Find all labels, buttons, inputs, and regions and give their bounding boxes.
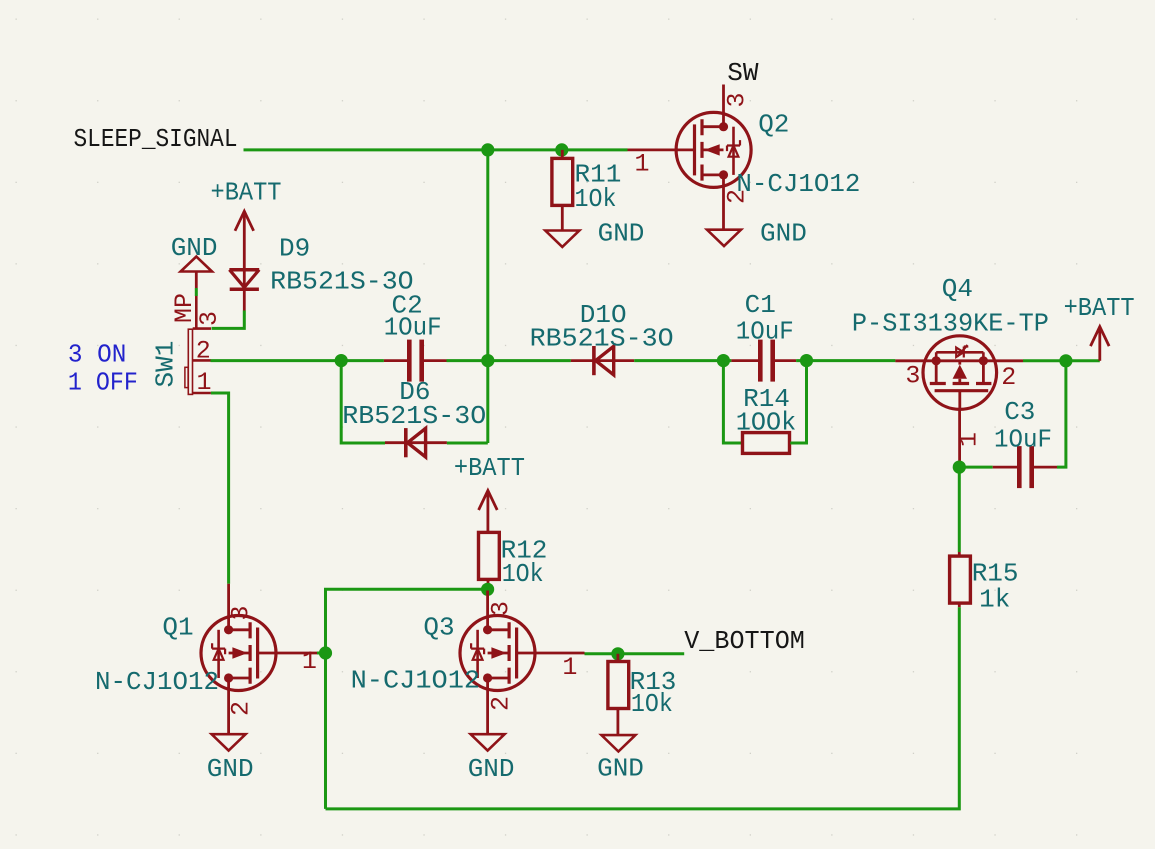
svg-text:RB521S-3O: RB521S-3O bbox=[342, 401, 486, 431]
svg-text:2: 2 bbox=[723, 189, 752, 204]
wire Q1 gate to junction bbox=[317, 652, 326, 655]
svg-text:1OuF: 1OuF bbox=[384, 313, 442, 343]
svg-text:Q3: Q3 bbox=[423, 613, 454, 643]
svg-text:N-CJ1O12: N-CJ1O12 bbox=[95, 667, 219, 697]
power +BATT at D9 bbox=[235, 211, 254, 289]
junction left of C1 bbox=[717, 354, 730, 367]
svg-text:1: 1 bbox=[562, 653, 577, 682]
junction left of C2 bbox=[335, 354, 348, 367]
svg-text:1Ok: 1Ok bbox=[502, 559, 544, 589]
svg-text:+BATT: +BATT bbox=[454, 453, 525, 483]
wire vertical from top wire down to mid row bbox=[486, 150, 489, 443]
resistor R11 bbox=[552, 150, 573, 230]
svg-text:3: 3 bbox=[487, 601, 516, 616]
svg-text:1OuF: 1OuF bbox=[736, 317, 794, 347]
wire R15 down to bottom loop bbox=[326, 607, 960, 809]
wire SW1 pin1 down to Q1 bbox=[211, 393, 229, 584]
svg-text:1OuF: 1OuF bbox=[994, 425, 1052, 455]
svg-text:1 OFF: 1 OFF bbox=[68, 368, 138, 398]
ground at SW1 pin3 (inverted) bbox=[181, 257, 212, 289]
svg-text:3 ON: 3 ON bbox=[68, 340, 127, 370]
wire D9 to SW1 pin3 bbox=[212, 311, 245, 329]
switch SW1 bbox=[185, 296, 211, 394]
wire C2 loop right bbox=[447, 442, 488, 445]
wire SW1 pin2 to C2 bbox=[211, 359, 384, 362]
svg-text:3: 3 bbox=[227, 605, 256, 620]
diode D6 bbox=[385, 428, 447, 457]
svg-text:SLEEP_SIGNAL: SLEEP_SIGNAL bbox=[74, 124, 238, 154]
wire C2 right to D10 bbox=[447, 359, 571, 362]
junction below Q4 bbox=[953, 461, 966, 474]
wire C3 junction down to R15 bbox=[958, 467, 961, 552]
svg-text:GND: GND bbox=[760, 219, 807, 249]
wire +BATT junction down to C3 bbox=[1057, 361, 1066, 467]
junction right of C1 bbox=[800, 354, 813, 367]
wire C1 right to Q4 bbox=[796, 359, 895, 362]
svg-text:3: 3 bbox=[723, 92, 752, 107]
wire C1 loop left bbox=[723, 361, 741, 443]
svg-text:1k: 1k bbox=[979, 585, 1010, 615]
junction Q1 gate bbox=[319, 646, 332, 659]
svg-text:1Ok: 1Ok bbox=[575, 184, 617, 214]
junction top wire / vertical bbox=[481, 143, 494, 156]
ground at Q2 bbox=[707, 230, 741, 246]
svg-text:RB521S-3O: RB521S-3O bbox=[530, 324, 674, 354]
capacitor C1 bbox=[731, 340, 796, 382]
diode D9 bbox=[229, 270, 259, 311]
wire Q3 gate to V_BOTTOM bbox=[585, 652, 685, 655]
junction mid row / vertical bbox=[481, 354, 494, 367]
wire R12 junction left and down to Q1 gate bbox=[326, 589, 488, 809]
svg-text:GND: GND bbox=[171, 233, 218, 263]
ground at R13 bbox=[601, 735, 635, 751]
resistor R14 bbox=[743, 433, 790, 454]
diode D10 bbox=[571, 346, 634, 375]
svg-text:D9: D9 bbox=[279, 234, 310, 264]
junction top wire / R11 bbox=[555, 143, 568, 156]
svg-text:GND: GND bbox=[207, 754, 254, 784]
svg-text:2: 2 bbox=[227, 701, 256, 716]
wire GND to SW1 pin3 bbox=[195, 288, 198, 296]
svg-text:C3: C3 bbox=[1004, 397, 1035, 427]
power +BATT right bbox=[1091, 327, 1110, 361]
svg-text:SW: SW bbox=[727, 58, 759, 88]
wire D10 to C1 bbox=[634, 359, 731, 362]
svg-text:1: 1 bbox=[197, 368, 212, 397]
transistor Q4 bbox=[895, 336, 1023, 465]
svg-text:1: 1 bbox=[302, 647, 317, 676]
resistor R13 bbox=[608, 654, 629, 735]
capacitor C3 bbox=[993, 446, 1057, 488]
transistor Q1 bbox=[201, 584, 317, 734]
ground at R11 bbox=[545, 231, 579, 247]
wire C1 loop right bbox=[790, 361, 806, 443]
junction R13 top bbox=[611, 647, 624, 660]
svg-text:3: 3 bbox=[905, 362, 920, 391]
wire C2 loop left bbox=[341, 361, 385, 443]
ground at Q3 bbox=[471, 734, 505, 750]
svg-text:C1: C1 bbox=[745, 290, 776, 320]
svg-text:Q1: Q1 bbox=[162, 613, 193, 643]
svg-text:3: 3 bbox=[195, 311, 224, 326]
transistor Q3 bbox=[460, 591, 585, 735]
junction right of Q4 bbox=[1059, 354, 1072, 367]
svg-text:GND: GND bbox=[598, 219, 645, 249]
power +BATT at R12 bbox=[479, 491, 498, 533]
resistor R12 bbox=[479, 532, 500, 589]
svg-text:Q2: Q2 bbox=[758, 110, 789, 140]
svg-text:N-CJ1O12: N-CJ1O12 bbox=[736, 169, 860, 199]
svg-text:1: 1 bbox=[955, 432, 984, 447]
wire Q4 pin1 junction to C3 bbox=[959, 466, 992, 469]
ground at Q1 bbox=[212, 734, 246, 750]
svg-text:1Ok: 1Ok bbox=[631, 689, 673, 719]
svg-text:N-CJ1O12: N-CJ1O12 bbox=[351, 666, 481, 696]
svg-text:2: 2 bbox=[487, 696, 516, 711]
transistor Q2 bbox=[628, 85, 752, 230]
svg-text:1OOk: 1OOk bbox=[736, 408, 797, 438]
svg-text:V_BOTTOM: V_BOTTOM bbox=[684, 626, 805, 656]
svg-text:GND: GND bbox=[468, 754, 515, 784]
svg-text:+BATT: +BATT bbox=[1064, 293, 1135, 323]
svg-text:P-SI3139KE-TP: P-SI3139KE-TP bbox=[852, 309, 1049, 339]
wire top horizontal SLEEP_SIGNAL to Q2 gate bbox=[244, 148, 628, 151]
wire Q4 pin2 to +BATT bbox=[1023, 359, 1100, 362]
capacitor C2 bbox=[384, 340, 447, 382]
svg-text:Q4: Q4 bbox=[942, 274, 973, 304]
svg-text:2: 2 bbox=[1001, 363, 1016, 392]
svg-text:GND: GND bbox=[597, 753, 644, 783]
svg-text:+BATT: +BATT bbox=[211, 178, 282, 208]
resistor R15 bbox=[950, 552, 971, 607]
svg-text:1: 1 bbox=[635, 150, 650, 179]
junction below R12 bbox=[481, 583, 494, 596]
svg-text:SW1: SW1 bbox=[151, 341, 181, 388]
svg-text:2: 2 bbox=[196, 337, 211, 366]
